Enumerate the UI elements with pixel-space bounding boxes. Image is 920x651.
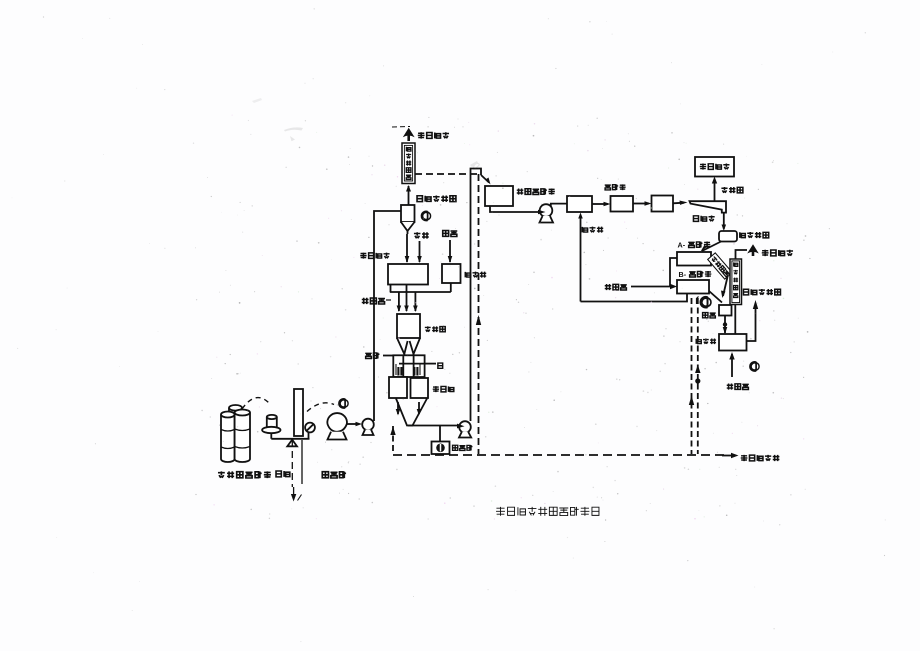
svg-text:A-: A- [678, 241, 686, 250]
svg-text:B-: B- [679, 270, 687, 279]
